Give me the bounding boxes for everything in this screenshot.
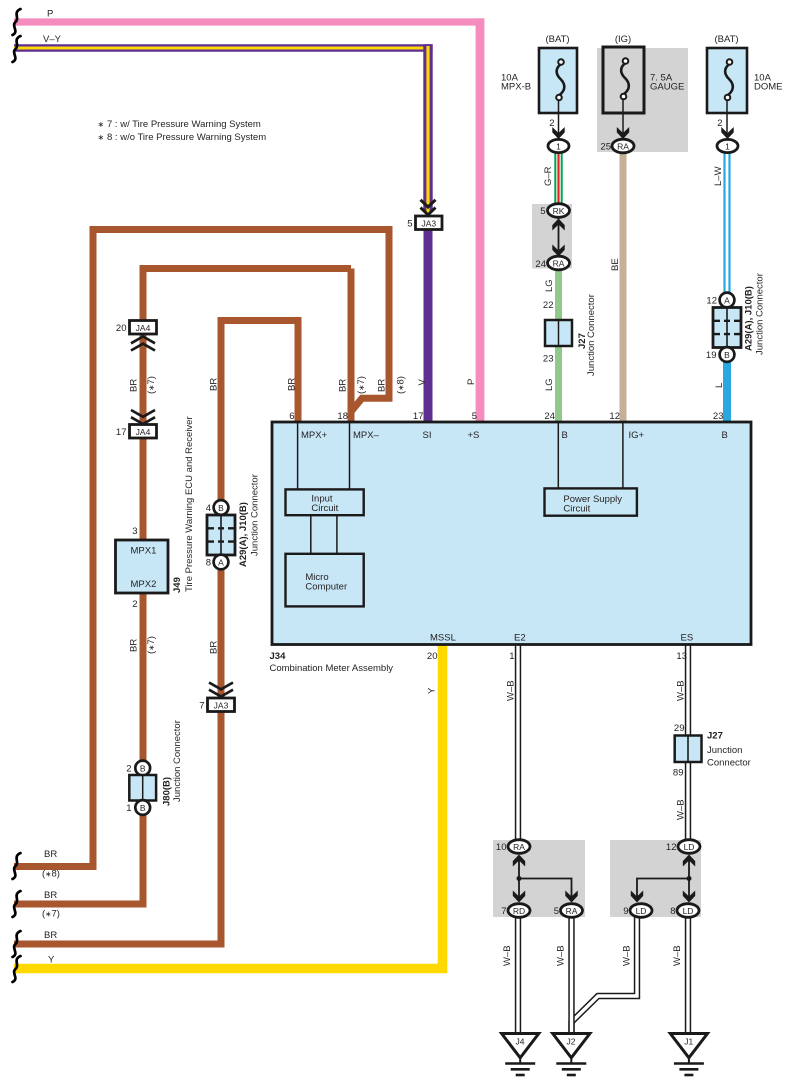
- svg-text:7: 7: [199, 701, 204, 712]
- svg-text:E2: E2: [514, 633, 526, 644]
- svg-text:SI: SI: [423, 430, 432, 441]
- junction connector JA3 5 box: [416, 216, 443, 230]
- svg-text:2: 2: [549, 118, 554, 129]
- svg-text:19: 19: [706, 350, 717, 361]
- gray shaded panel behind LD/LD/LD splice box: [610, 840, 701, 917]
- svg-text:2: 2: [126, 764, 131, 775]
- ground J4: [502, 1034, 539, 1076]
- terminal oval LD 8: [677, 904, 699, 918]
- internal line B to power supply: [557, 423, 559, 488]
- svg-text:4: 4: [206, 503, 211, 514]
- svg-text:A: A: [724, 296, 730, 306]
- wire L from connector B to B pin: [723, 356, 731, 424]
- svg-text:10: 10: [496, 842, 507, 853]
- fuse output arrow: [617, 127, 629, 139]
- svg-text:LG: LG: [544, 378, 555, 391]
- chevrons out of JA4 20: [131, 337, 155, 351]
- svg-text:12: 12: [706, 296, 717, 307]
- svg-text:5: 5: [540, 206, 545, 217]
- svg-text:W–B: W–B: [672, 945, 683, 966]
- svg-text:2: 2: [717, 118, 722, 129]
- svg-text:BR: BR: [209, 641, 220, 654]
- svg-text:12: 12: [609, 411, 620, 422]
- svg-text:B: B: [140, 803, 146, 813]
- svg-text:∗ 8 : w/o Tire Pressure Warnin: ∗ 8 : w/o Tire Pressure Warning System: [98, 132, 267, 143]
- internal line MPX+ to input circuit: [297, 423, 299, 489]
- svg-text:A29(A), J10(B): A29(A), J10(B): [744, 286, 755, 351]
- svg-text:BR: BR: [338, 379, 349, 392]
- power supply circuit box U3: [545, 488, 637, 515]
- fuse output arrow: [552, 127, 564, 139]
- svg-text:2: 2: [132, 599, 137, 610]
- svg-text:1: 1: [509, 651, 514, 662]
- svg-text:W–B: W–B: [556, 945, 567, 966]
- svg-text:25: 25: [600, 142, 611, 153]
- junction connector JA4 20 box: [130, 321, 157, 335]
- svg-text:RA: RA: [566, 906, 578, 916]
- svg-text:Connector: Connector: [707, 758, 751, 769]
- svg-text:LD: LD: [684, 842, 695, 852]
- terminal oval 1: [548, 139, 569, 152]
- wire V-Y violet with yellow stripe: [14, 44, 433, 52]
- ground J1: [670, 1034, 707, 1076]
- wire W-B RD to ground J4: [515, 915, 521, 1034]
- svg-text:7: 7: [501, 906, 506, 917]
- svg-text:Circuit: Circuit: [563, 503, 590, 514]
- terminal oval RK 5: [548, 204, 570, 218]
- svg-text:23: 23: [713, 411, 724, 422]
- svg-text:J80(B): J80(B): [162, 777, 173, 806]
- svg-text:J27: J27: [707, 731, 723, 742]
- svg-text:MSSL: MSSL: [430, 633, 456, 644]
- chevrons into JA3 7: [209, 683, 233, 697]
- wire LG from RA to B pin: [555, 266, 562, 424]
- svg-text:12: 12: [666, 842, 677, 853]
- internal lines input circuit to micro computer: [311, 515, 337, 554]
- svg-text:5: 5: [554, 906, 559, 917]
- svg-text:RA: RA: [617, 142, 629, 152]
- svg-text:DOME: DOME: [754, 82, 783, 93]
- wire Y yellow from MSSL: [14, 645, 443, 969]
- svg-text:B: B: [218, 503, 224, 513]
- svg-text:(BAT): (BAT): [714, 34, 738, 45]
- chevrons into JA3 5: [421, 200, 436, 215]
- svg-text:BR: BR: [129, 639, 140, 652]
- svg-text:A29(A), J10(B): A29(A), J10(B): [238, 502, 249, 567]
- svg-text:MPX+: MPX+: [301, 430, 328, 441]
- terminal oval LD 9: [630, 904, 652, 918]
- fuse 10A MPX-B box: [539, 48, 577, 113]
- wire W-B RA 5 to ground J2: [568, 915, 574, 1034]
- svg-text:20: 20: [427, 651, 438, 662]
- svg-text:24: 24: [544, 411, 555, 422]
- svg-text:BR: BR: [209, 378, 220, 391]
- svg-text:G–R: G–R: [543, 166, 554, 186]
- wire W-B E2 to RA splice: [515, 645, 521, 842]
- svg-text:(IG): (IG): [615, 34, 631, 45]
- junction connector J80(B): circle B top: [135, 761, 150, 776]
- terminal oval RA 10: [508, 840, 530, 854]
- chevrons into JA4 17: [131, 410, 155, 424]
- wire W-B LD 9 diagonal to J2: [572, 915, 638, 1034]
- junction connector J27 29/89 on ES: [675, 736, 702, 763]
- wire W-B LD 8 to ground J1: [685, 915, 691, 1034]
- svg-text:Junction Connector: Junction Connector: [586, 294, 597, 376]
- svg-text:IG+: IG+: [629, 430, 645, 441]
- svg-text:ES: ES: [681, 633, 694, 644]
- terminal oval RD 7: [508, 904, 530, 918]
- fuse output arrow: [721, 127, 733, 139]
- internal line MPX- to input circuit: [349, 423, 351, 489]
- svg-text:Junction: Junction: [707, 745, 742, 756]
- terminal oval RA 5: [561, 904, 583, 918]
- svg-text:BR: BR: [44, 930, 57, 941]
- svg-text:Y: Y: [427, 687, 438, 694]
- svg-text:L–W: L–W: [713, 166, 724, 186]
- svg-text:RK: RK: [553, 206, 565, 216]
- svg-text:23: 23: [543, 354, 554, 365]
- junction connector A29(A),J10(B) left: circle B: [214, 500, 229, 515]
- svg-text:Combination Meter Assembly: Combination Meter Assembly: [270, 663, 394, 674]
- svg-text:B: B: [722, 430, 728, 441]
- svg-text:(∗7): (∗7): [146, 636, 157, 654]
- svg-text:Junction Connector: Junction Connector: [172, 720, 183, 802]
- junction connector JA4 17 box: [130, 425, 157, 439]
- svg-text:B: B: [562, 430, 568, 441]
- svg-text:8: 8: [206, 558, 211, 569]
- ground J2: [553, 1034, 590, 1076]
- svg-text:5: 5: [407, 219, 412, 230]
- connector pair RK/RA with arrows: [558, 214, 560, 258]
- svg-text:3: 3: [132, 526, 137, 537]
- circle B: [720, 347, 735, 362]
- micro computer box U2: [286, 554, 364, 607]
- svg-text:BR: BR: [377, 379, 388, 392]
- svg-text:(∗7): (∗7): [146, 376, 157, 394]
- svg-text:L: L: [714, 383, 725, 388]
- svg-text:J1: J1: [684, 1037, 693, 1047]
- svg-text:(∗7): (∗7): [356, 376, 367, 394]
- svg-text:P: P: [466, 379, 477, 385]
- svg-text:BR: BR: [287, 378, 298, 391]
- svg-text:13: 13: [676, 651, 687, 662]
- wire BR (*7) rect2: top run and MPX- drop: [14, 269, 351, 905]
- svg-text:V–Y: V–Y: [43, 34, 62, 45]
- svg-text:17: 17: [116, 427, 127, 438]
- gray shaded panel behind RA/RD/RA splice box: [493, 840, 585, 917]
- fuse 10A DOME box: [707, 48, 747, 113]
- svg-text:MPX1: MPX1: [131, 546, 157, 557]
- svg-text:B: B: [724, 350, 730, 360]
- svg-text:A: A: [218, 558, 224, 568]
- svg-text:MPX2: MPX2: [131, 579, 157, 590]
- fuse 7.5A GAUGE box: [603, 47, 644, 113]
- svg-text:8: 8: [670, 906, 675, 917]
- junction connector A29(A),J10(B) right: circle A: [720, 293, 735, 308]
- input circuit box U1: [286, 489, 364, 515]
- svg-text:BE: BE: [610, 258, 621, 271]
- svg-text:9: 9: [623, 906, 628, 917]
- junction connector JA3 7 box: [208, 698, 235, 712]
- wire P pink horizontal+vertical to +S: [14, 18, 484, 25]
- gray shaded panel behind IG GAUGE fuse: [597, 48, 688, 152]
- wire L-W dome fuse to connector A: [723, 152, 730, 298]
- tire pressure warning ECU box J49 MPX1/MPX2: [116, 540, 169, 593]
- svg-text:Junction Connector: Junction Connector: [755, 273, 766, 355]
- svg-text:BR: BR: [129, 379, 140, 392]
- svg-text:(∗8): (∗8): [42, 869, 60, 880]
- svg-text:J49: J49: [172, 577, 183, 593]
- svg-text:22: 22: [543, 300, 554, 311]
- terminal oval RA 25: [612, 139, 634, 153]
- svg-text:(∗8): (∗8): [396, 376, 407, 394]
- wire W-B ES to LD splice through J27: [685, 645, 691, 842]
- wire BE from fuse GAUGE to IG+: [620, 150, 627, 424]
- svg-text:5: 5: [472, 411, 477, 422]
- terminal oval 1: [717, 139, 738, 152]
- svg-text:MPX–: MPX–: [353, 430, 380, 441]
- circle A: [214, 555, 229, 570]
- J80(B) box: [129, 775, 156, 801]
- svg-text:JA3: JA3: [421, 219, 436, 229]
- svg-text:MPX-B: MPX-B: [501, 82, 531, 93]
- svg-text:Circuit: Circuit: [311, 503, 338, 514]
- svg-text:LD: LD: [636, 906, 647, 916]
- wire BR inner loop to MPX+ and JA3 7: [14, 321, 298, 945]
- grid box: [713, 308, 741, 348]
- svg-text:W–B: W–B: [502, 945, 513, 966]
- wire G-R fuse to RK: [554, 152, 562, 206]
- svg-text:Y: Y: [48, 955, 55, 966]
- svg-text:JA4: JA4: [136, 323, 151, 333]
- svg-text:1: 1: [126, 803, 131, 814]
- svg-text:J2: J2: [567, 1037, 576, 1047]
- svg-text:W–B: W–B: [622, 945, 633, 966]
- svg-text:BR: BR: [44, 849, 57, 860]
- left edge break squiggles: [13, 9, 21, 35]
- svg-text:1: 1: [725, 142, 730, 152]
- svg-text:RD: RD: [513, 906, 525, 916]
- svg-text:P: P: [47, 9, 53, 20]
- gray shaded panel behind RK/RA connector pair: [532, 204, 572, 269]
- svg-text:J4: J4: [516, 1037, 525, 1047]
- terminal oval RA 24: [548, 256, 570, 270]
- svg-text:GAUGE: GAUGE: [650, 82, 684, 93]
- svg-text:JA4: JA4: [136, 427, 151, 437]
- wire BR outer loop (*8): [14, 230, 389, 867]
- svg-text:1: 1: [556, 142, 561, 152]
- svg-text:18: 18: [337, 411, 348, 422]
- svg-text:JA3: JA3: [214, 701, 229, 711]
- svg-text:J34: J34: [270, 651, 287, 662]
- svg-text:RA: RA: [513, 842, 525, 852]
- svg-text:6: 6: [289, 411, 294, 422]
- splice box 2 internals: line and arrows: [637, 856, 689, 901]
- svg-text:Tire Pressure Warning ECU and: Tire Pressure Warning ECU and Receiver: [184, 416, 195, 592]
- svg-text:Junction Connector: Junction Connector: [250, 474, 261, 556]
- svg-text:∗ 7 : w/ Tire Pressure Warning: ∗ 7 : w/ Tire Pressure Warning System: [98, 119, 261, 130]
- svg-text:(BAT): (BAT): [545, 34, 569, 45]
- svg-text:LD: LD: [683, 906, 694, 916]
- svg-text:(∗7): (∗7): [42, 909, 60, 920]
- svg-text:V: V: [417, 379, 428, 386]
- internal line IG+ to power supply: [622, 423, 624, 488]
- svg-text:Computer: Computer: [305, 582, 347, 593]
- svg-text:89: 89: [673, 768, 684, 779]
- svg-text:W–B: W–B: [676, 680, 687, 701]
- combination meter assembly box J34: [272, 422, 751, 645]
- grid box: [207, 515, 235, 555]
- terminal oval LD 12: [678, 840, 700, 854]
- wire V violet from JA3 to SI: [424, 229, 433, 424]
- svg-text:LG: LG: [544, 279, 555, 292]
- svg-text:RA: RA: [553, 259, 565, 269]
- circle B bottom: [135, 800, 150, 815]
- svg-text:24: 24: [535, 259, 546, 270]
- junction connector J27 22/23 on LG: [545, 320, 572, 346]
- svg-text:20: 20: [116, 323, 127, 334]
- svg-text:29: 29: [674, 723, 685, 734]
- splice box 1 internals: line and arrows: [519, 856, 572, 901]
- svg-text:B: B: [140, 764, 146, 774]
- svg-text:17: 17: [413, 411, 424, 422]
- svg-text:BR: BR: [44, 890, 57, 901]
- svg-text:+S: +S: [468, 430, 480, 441]
- svg-text:W–B: W–B: [506, 680, 517, 701]
- svg-text:W–B: W–B: [676, 799, 687, 820]
